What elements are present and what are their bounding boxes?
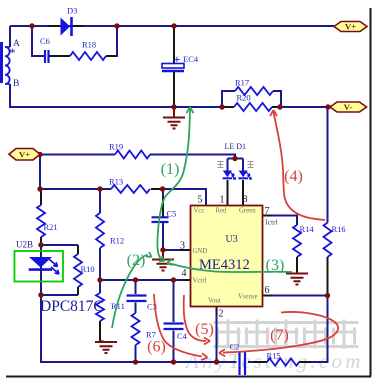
- svg-text:5: 5: [198, 195, 203, 206]
- svg-text:*: *: [9, 45, 16, 60]
- svg-text:R13: R13: [109, 177, 123, 187]
- svg-text:R14: R14: [300, 224, 315, 234]
- svg-text:Vctrl: Vctrl: [193, 278, 207, 285]
- svg-text:(4): (4): [284, 168, 303, 185]
- svg-text:V-: V-: [344, 102, 353, 112]
- svg-text:8: 8: [243, 194, 248, 205]
- svg-text:R12: R12: [110, 236, 124, 246]
- svg-text:U3: U3: [226, 234, 238, 245]
- svg-text:R20: R20: [237, 93, 251, 103]
- svg-text:(5): (5): [195, 321, 214, 338]
- svg-text:6: 6: [265, 285, 270, 296]
- svg-text:(2): (2): [127, 252, 146, 269]
- svg-text:R16: R16: [332, 224, 346, 234]
- svg-text:LE D1: LE D1: [225, 142, 247, 151]
- svg-text:EC4: EC4: [183, 54, 199, 64]
- svg-text:1: 1: [220, 195, 225, 206]
- svg-text:R19: R19: [109, 142, 123, 152]
- svg-text:3: 3: [180, 241, 185, 252]
- svg-text:+: +: [174, 52, 181, 66]
- svg-text:R21: R21: [44, 222, 58, 232]
- svg-text:C6: C6: [40, 36, 50, 46]
- svg-text:R10: R10: [81, 264, 95, 274]
- svg-text:V+: V+: [19, 149, 30, 159]
- svg-text:7: 7: [265, 206, 270, 217]
- svg-text:Ictrl: Ictrl: [266, 219, 278, 227]
- svg-text:R18: R18: [82, 40, 96, 50]
- svg-text:2: 2: [219, 309, 224, 320]
- svg-text:D3: D3: [67, 6, 77, 16]
- svg-text:B: B: [13, 79, 19, 89]
- svg-text:(3): (3): [266, 257, 285, 274]
- svg-text:C5: C5: [167, 209, 177, 219]
- svg-text:Vcc: Vcc: [194, 208, 205, 215]
- svg-text:GND: GND: [193, 248, 208, 255]
- svg-text:(7): (7): [270, 327, 289, 344]
- svg-text:V+: V+: [345, 22, 356, 32]
- svg-text:4: 4: [182, 268, 187, 279]
- svg-text:DPC817C: DPC817C: [40, 298, 104, 315]
- svg-text:Vout: Vout: [208, 298, 221, 305]
- svg-text:Vsense: Vsense: [238, 294, 258, 301]
- svg-text:R15: R15: [267, 351, 281, 361]
- svg-text:C2: C2: [230, 342, 240, 352]
- svg-text:(1): (1): [161, 161, 180, 178]
- svg-text:C4: C4: [177, 331, 188, 341]
- svg-text:U2B: U2B: [16, 240, 33, 250]
- svg-text:Red: Red: [216, 208, 228, 215]
- svg-text:Green: Green: [239, 208, 256, 215]
- svg-text:R17: R17: [235, 78, 249, 88]
- svg-text:(6): (6): [147, 339, 166, 356]
